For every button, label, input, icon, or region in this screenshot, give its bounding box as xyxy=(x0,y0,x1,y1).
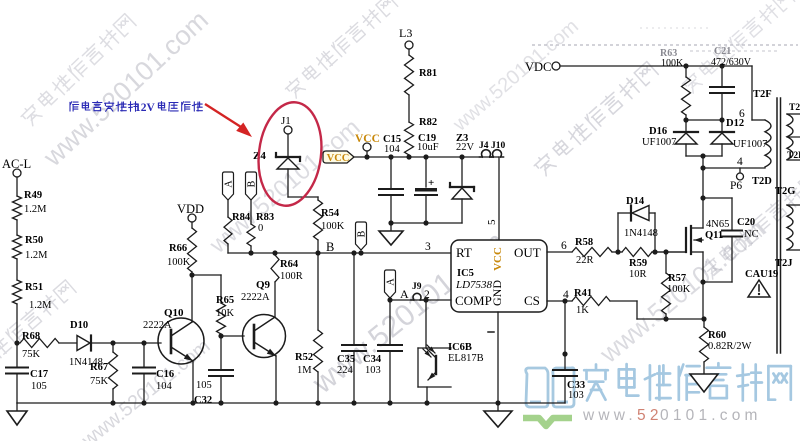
svg-text:R58: R58 xyxy=(575,237,593,248)
wire R66 node to R65 xyxy=(192,275,221,303)
svg-text:R41: R41 xyxy=(574,288,592,299)
svg-text:T2B: T2B xyxy=(789,103,800,113)
svg-text:A: A xyxy=(400,287,409,301)
annotation: blue text xyxy=(70,101,202,114)
svg-text:EL817B: EL817B xyxy=(448,353,484,364)
resistor R51 xyxy=(13,280,53,311)
svg-text:VDC: VDC xyxy=(525,60,551,74)
junction R65/C32/Q9 base xyxy=(218,333,223,338)
svg-text:IC5: IC5 xyxy=(457,268,474,279)
capacitor C20 (NC) xyxy=(703,198,759,282)
svg-text:2222A: 2222A xyxy=(241,292,270,303)
wire VCC rail xyxy=(354,156,499,158)
site logo: url row xyxy=(582,407,762,424)
transistor Q11 4N65 MOSFET xyxy=(655,219,729,254)
svg-text:Q11: Q11 xyxy=(705,230,723,241)
resistor R58 xyxy=(572,237,618,266)
svg-text:0.82R/2W: 0.82R/2W xyxy=(708,341,752,352)
svg-text:R50: R50 xyxy=(25,235,43,246)
capacitor C16 xyxy=(133,343,174,403)
resistor R67 xyxy=(90,343,118,403)
svg-text:472/630V: 472/630V xyxy=(711,57,752,68)
wire IC5 GND xyxy=(488,312,498,403)
wire drain column xyxy=(700,195,732,200)
svg-text:1.2M: 1.2M xyxy=(29,300,52,311)
diode D12 UF1007 xyxy=(710,118,767,156)
svg-text:1.2M: 1.2M xyxy=(25,250,48,261)
junction R57 bottom xyxy=(663,316,668,321)
junction D14 left xyxy=(615,249,620,254)
op-amp/controller IC5 LD7538 xyxy=(451,240,547,312)
svg-text:C34: C34 xyxy=(363,354,382,365)
svg-text:T2H: T2H xyxy=(787,151,800,161)
svg-text:IC6B: IC6B xyxy=(448,342,472,353)
wire VCC gnd return xyxy=(388,220,462,225)
resistor R49 xyxy=(13,190,48,220)
node AC-L xyxy=(2,157,31,177)
svg-text:VCC: VCC xyxy=(492,247,504,271)
svg-text:75K: 75K xyxy=(90,376,109,387)
wire R68 to D10 xyxy=(59,342,77,344)
junction R83/B rail xyxy=(248,250,253,255)
svg-text:T2G: T2G xyxy=(775,186,795,197)
svg-text:100R: 100R xyxy=(280,271,303,282)
svg-text:1.2M: 1.2M xyxy=(24,204,47,215)
svg-text:4: 4 xyxy=(737,156,743,168)
resistor R63 xyxy=(660,48,691,120)
zener Z4 xyxy=(253,150,300,169)
transistor Q9 2222A xyxy=(241,279,286,358)
svg-text:6: 6 xyxy=(739,108,745,120)
svg-text:UF1007: UF1007 xyxy=(642,137,676,148)
ground left xyxy=(7,403,27,425)
svg-text:10R: 10R xyxy=(629,269,647,280)
connector J1 xyxy=(281,115,292,134)
junction D14 right xyxy=(652,249,657,254)
svg-text:3: 3 xyxy=(425,241,431,253)
svg-text:B: B xyxy=(357,230,368,237)
resistor R65 xyxy=(216,295,235,336)
optocoupler IC6B EL817B xyxy=(418,300,484,403)
wire AC-L column xyxy=(16,177,18,343)
jumper J4 xyxy=(479,141,493,157)
pennant flag A (R84) xyxy=(223,172,234,200)
transformer T2 primary winding xyxy=(753,89,772,167)
svg-text:105: 105 xyxy=(196,380,212,391)
pin 4 of T2 / connector P6 xyxy=(730,156,744,192)
svg-text:D14: D14 xyxy=(626,196,645,207)
junctions on ground rail xyxy=(110,400,500,405)
svg-text:12V: 12V xyxy=(135,102,156,114)
flag VCC xyxy=(323,151,354,164)
resistor R50 xyxy=(13,235,49,261)
svg-text:T2F: T2F xyxy=(753,89,772,100)
svg-text:224: 224 xyxy=(337,365,354,376)
svg-text:GND: GND xyxy=(490,280,504,306)
wire snubber top xyxy=(683,117,724,122)
junction R57 top xyxy=(663,249,668,254)
svg-text:J1: J1 xyxy=(281,115,291,127)
svg-text:4N65: 4N65 xyxy=(706,219,729,230)
svg-text:105: 105 xyxy=(31,381,47,392)
svg-text:C16: C16 xyxy=(156,369,174,380)
svg-text:R52: R52 xyxy=(295,352,313,363)
svg-text:www.: www. xyxy=(582,407,637,424)
svg-text:OUT: OUT xyxy=(514,245,541,260)
svg-text:NC: NC xyxy=(744,229,759,240)
svg-text:Q9: Q9 xyxy=(256,279,271,291)
pennant flag A on COMP xyxy=(385,270,397,303)
svg-text:CS: CS xyxy=(524,293,540,308)
wire COMP net xyxy=(390,299,451,301)
power VDD xyxy=(177,202,204,222)
svg-text:LD7538: LD7538 xyxy=(455,279,493,291)
svg-text:A: A xyxy=(386,278,397,286)
ground R60 xyxy=(690,374,718,392)
svg-text:D10: D10 xyxy=(70,320,88,331)
svg-text:C20: C20 xyxy=(737,217,755,228)
svg-text:A: A xyxy=(224,180,235,188)
svg-text:COMP: COMP xyxy=(455,293,492,308)
wire gate xyxy=(655,251,686,253)
resistor R83 (0 ohm) xyxy=(247,200,274,253)
svg-text:103: 103 xyxy=(568,390,584,401)
pennant flag B (R83) xyxy=(246,172,257,200)
svg-text:R66: R66 xyxy=(169,243,187,254)
svg-text:0101.com: 0101.com xyxy=(660,407,762,424)
site logo: book icon xyxy=(526,368,574,407)
svg-text:100K: 100K xyxy=(321,221,345,232)
wire VDC rail xyxy=(560,66,765,120)
junction R54/R52 on B rail xyxy=(315,250,320,255)
svg-text:6: 6 xyxy=(561,240,567,252)
junction C33 tee xyxy=(562,298,567,303)
svg-text:D16: D16 xyxy=(649,126,667,137)
svg-text:10uF: 10uF xyxy=(417,142,439,153)
power VCC pin xyxy=(355,133,380,160)
svg-text:J4: J4 xyxy=(479,141,489,151)
wire CS pin xyxy=(547,300,572,302)
svg-text:R49: R49 xyxy=(24,190,42,201)
svg-text:Q10: Q10 xyxy=(164,307,184,319)
capacitor C35 xyxy=(337,253,366,403)
resistor R84 xyxy=(224,200,251,253)
capacitor C33 xyxy=(553,301,585,403)
site logo: big blue CJK text xyxy=(584,365,608,401)
resistor R60 xyxy=(700,319,752,374)
svg-text:5: 5 xyxy=(486,219,498,225)
svg-text:J9: J9 xyxy=(412,282,422,292)
diode D16 UF1007 xyxy=(642,120,698,156)
svg-text:22R: 22R xyxy=(576,255,594,266)
diode D14 1N4148 xyxy=(618,196,658,252)
svg-text:100K: 100K xyxy=(661,58,684,69)
junction opto tee xyxy=(423,297,428,302)
svg-text:0: 0 xyxy=(258,223,263,234)
svg-text:R54: R54 xyxy=(321,208,340,219)
wire to Q9 base xyxy=(221,335,244,337)
junction R63 top xyxy=(683,63,688,68)
resistor R57 xyxy=(662,252,691,319)
wire ground rail xyxy=(17,402,565,404)
dashed remnant lines xyxy=(532,28,798,51)
junction R67 xyxy=(110,340,115,345)
svg-text:L3: L3 xyxy=(399,26,412,40)
svg-text:CAU19: CAU19 xyxy=(745,269,778,280)
wire drain rail xyxy=(700,165,765,228)
pennant flag B on rail xyxy=(356,222,368,256)
svg-text:R68: R68 xyxy=(22,331,40,342)
svg-text:R65: R65 xyxy=(216,295,234,306)
capacitor C32 xyxy=(194,336,233,406)
junction source/R60 xyxy=(701,316,706,321)
transistor Q10 2222A xyxy=(143,307,204,364)
svg-text:R67: R67 xyxy=(90,362,108,373)
junction C35 on B rail xyxy=(351,250,356,255)
svg-text:52: 52 xyxy=(637,407,663,424)
wire Q11 source xyxy=(700,252,705,319)
svg-text:100K: 100K xyxy=(167,257,191,268)
wire snubber bottom xyxy=(686,153,722,168)
warning symbol CAU19 xyxy=(745,269,778,297)
svg-text:RT: RT xyxy=(456,245,472,260)
svg-text:B: B xyxy=(326,240,334,254)
svg-text:T2J: T2J xyxy=(775,258,793,269)
resistor R64 xyxy=(271,253,303,282)
power VDC xyxy=(525,60,560,74)
svg-text:VCC: VCC xyxy=(327,153,350,164)
svg-text:J10: J10 xyxy=(491,141,506,151)
resistor R41 xyxy=(572,288,610,316)
inductor L3 pin xyxy=(399,26,413,49)
svg-text:100K: 100K xyxy=(667,284,691,295)
jumper J10 xyxy=(491,141,506,157)
resistor R52 xyxy=(295,253,323,403)
svg-text:C35: C35 xyxy=(337,354,355,365)
junction C16 xyxy=(141,340,146,345)
svg-text:C32: C32 xyxy=(194,395,212,406)
resistor R82 xyxy=(405,117,438,160)
svg-text:104: 104 xyxy=(384,144,401,155)
svg-text:22V: 22V xyxy=(456,142,475,153)
junction R64/B rail xyxy=(272,250,277,255)
ground IC5 xyxy=(484,403,512,427)
capacitor C34 xyxy=(363,300,402,403)
svg-text:+: + xyxy=(428,177,434,189)
wire Q9 emitter xyxy=(275,356,277,403)
junction R66/Q10 collector xyxy=(189,272,194,277)
svg-text:R84: R84 xyxy=(232,212,251,223)
svg-text:C21: C21 xyxy=(714,46,731,57)
svg-text:R81: R81 xyxy=(419,68,437,79)
svg-text:2222A: 2222A xyxy=(143,320,172,331)
transformer core xyxy=(777,98,781,353)
annotation: red ellipse xyxy=(253,99,327,210)
wire Q10 emitter xyxy=(192,361,194,403)
svg-text:B: B xyxy=(247,180,258,187)
junction at R51/C17/R68 xyxy=(14,340,19,345)
svg-text:R60: R60 xyxy=(708,330,726,341)
svg-text:UF1007: UF1007 xyxy=(733,139,767,150)
transformer secondary top xyxy=(787,103,800,161)
svg-text:104: 104 xyxy=(156,381,173,392)
resistor R68 xyxy=(20,331,59,360)
site logo: green swoosh xyxy=(523,418,572,426)
wire OUT pin xyxy=(547,251,572,253)
capacitor C17 xyxy=(6,343,48,403)
wire Q9 collector xyxy=(274,282,276,317)
svg-text:T2D: T2D xyxy=(752,176,772,187)
wire net B rail xyxy=(228,252,451,254)
capacitor C19 electrolytic xyxy=(415,133,439,223)
resistor R66 xyxy=(167,222,197,275)
wire Z4 to R54 xyxy=(288,169,318,197)
svg-text:R83: R83 xyxy=(256,212,274,223)
resistor R59 xyxy=(618,248,655,281)
svg-text:R51: R51 xyxy=(25,282,43,293)
svg-text:75K: 75K xyxy=(22,349,41,360)
resistor R81 xyxy=(405,49,438,122)
wire J1 to Z4 xyxy=(287,134,289,156)
transformer secondary bottom xyxy=(775,186,800,269)
zener Z3 xyxy=(450,133,475,223)
svg-text:1K: 1K xyxy=(576,305,589,316)
svg-text:103: 103 xyxy=(365,365,381,376)
wire VCC to IC5 pin5 xyxy=(498,157,500,240)
wire R41 to source node xyxy=(610,301,704,319)
capacitor C15 xyxy=(379,134,403,223)
annotation: red arrow xyxy=(205,104,252,137)
svg-text:C17: C17 xyxy=(30,369,48,380)
wire D10 to Q10 base xyxy=(91,342,161,344)
resistor R54 xyxy=(314,197,345,253)
svg-text:1N4148: 1N4148 xyxy=(624,228,658,239)
svg-text:R64: R64 xyxy=(280,259,299,270)
capacitor C21 472/630V xyxy=(710,46,752,120)
jumper J9 xyxy=(411,282,423,300)
svg-text:R57: R57 xyxy=(668,273,686,284)
diode D10 1N4148 xyxy=(69,320,103,368)
wire Q10 collector xyxy=(191,276,193,322)
svg-text:P6: P6 xyxy=(730,180,742,192)
svg-text:10K: 10K xyxy=(216,308,235,319)
svg-text:R59: R59 xyxy=(629,258,647,269)
ground under C15 xyxy=(379,223,403,245)
svg-text:R82: R82 xyxy=(419,117,437,128)
junction C21 top xyxy=(719,63,724,68)
svg-text:1M: 1M xyxy=(297,365,312,376)
